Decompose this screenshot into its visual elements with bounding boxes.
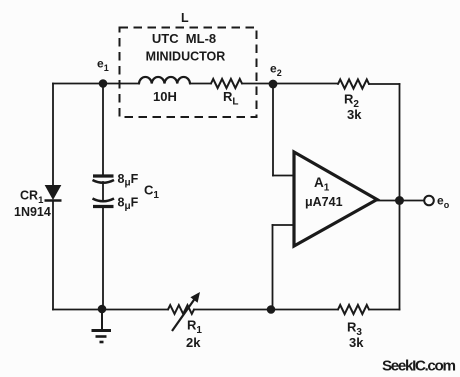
svg-text:SeekIC.com: SeekIC.com — [382, 358, 455, 375]
wire bottom: left corner to ground junction to R1 — [53, 309, 168, 311]
resistor R1 arrow (variable) — [172, 292, 200, 331]
wire output junction to terminal — [404, 200, 424, 202]
resistor R3 — [338, 305, 369, 314]
inductor module dashed box — [120, 28, 257, 118]
resistor R2 — [338, 79, 369, 88]
wire non-inverting input down to bottom junction — [272, 225, 274, 310]
wire top: R2 to right corner — [369, 83, 400, 85]
svg-text:10H: 10H — [153, 89, 177, 104]
ground junction dot — [98, 305, 107, 314]
capacitor C1 upper section plates — [93, 176, 115, 183]
wire top: RL to node e2 and on to R2 — [242, 83, 338, 85]
wire op-amp output to junction — [377, 200, 400, 202]
resistor R1 zigzag — [168, 305, 194, 314]
wire right vertical (R2 end down through output node to R3 end) — [399, 84, 401, 310]
wire left vertical lower (diode to bottom corner) — [52, 201, 54, 310]
diode CR1 — [45, 186, 62, 201]
svg-text:MINIDUCTOR: MINIDUCTOR — [146, 50, 226, 64]
capacitor C1 lower section plates — [93, 199, 115, 207]
wire top: inductor to RL — [190, 83, 211, 85]
wire from capacitor C1 down to ground junction — [102, 207, 104, 310]
wire left vertical upper (e1 corner down to diode) — [52, 84, 54, 186]
svg-text:2k: 2k — [186, 335, 201, 350]
svg-text:L: L — [181, 11, 189, 25]
ground symbol — [92, 310, 112, 343]
svg-text:UTC ML-8: UTC ML-8 — [152, 31, 216, 46]
wire inverting input horizontal — [273, 175, 294, 177]
svg-text:1N914: 1N914 — [14, 205, 51, 219]
resistor RL — [211, 79, 242, 88]
node e2 junction dot — [269, 80, 278, 89]
wire bottom: R1 to junction to R3 — [194, 309, 338, 311]
svg-text:3k: 3k — [347, 107, 362, 122]
wire top: left corner to inductor — [53, 83, 139, 85]
wire from e1 down to capacitor C1 — [102, 84, 104, 177]
bottom junction dot (feedback node) — [267, 305, 276, 314]
wire between capacitor sections — [102, 182, 104, 200]
svg-text:μA741: μA741 — [305, 195, 343, 209]
output node junction dot — [395, 196, 404, 205]
wire non-inverting input horizontal — [273, 224, 295, 226]
output terminal open circle — [424, 196, 434, 206]
node e1 junction dot — [99, 79, 108, 88]
inductor L coil 10H — [139, 77, 190, 84]
wire from e2 down to inverting input — [272, 84, 274, 176]
op-amp A1 triangle — [294, 152, 377, 246]
svg-text:3k: 3k — [349, 335, 364, 350]
wire bottom: R3 to right corner — [369, 309, 400, 311]
